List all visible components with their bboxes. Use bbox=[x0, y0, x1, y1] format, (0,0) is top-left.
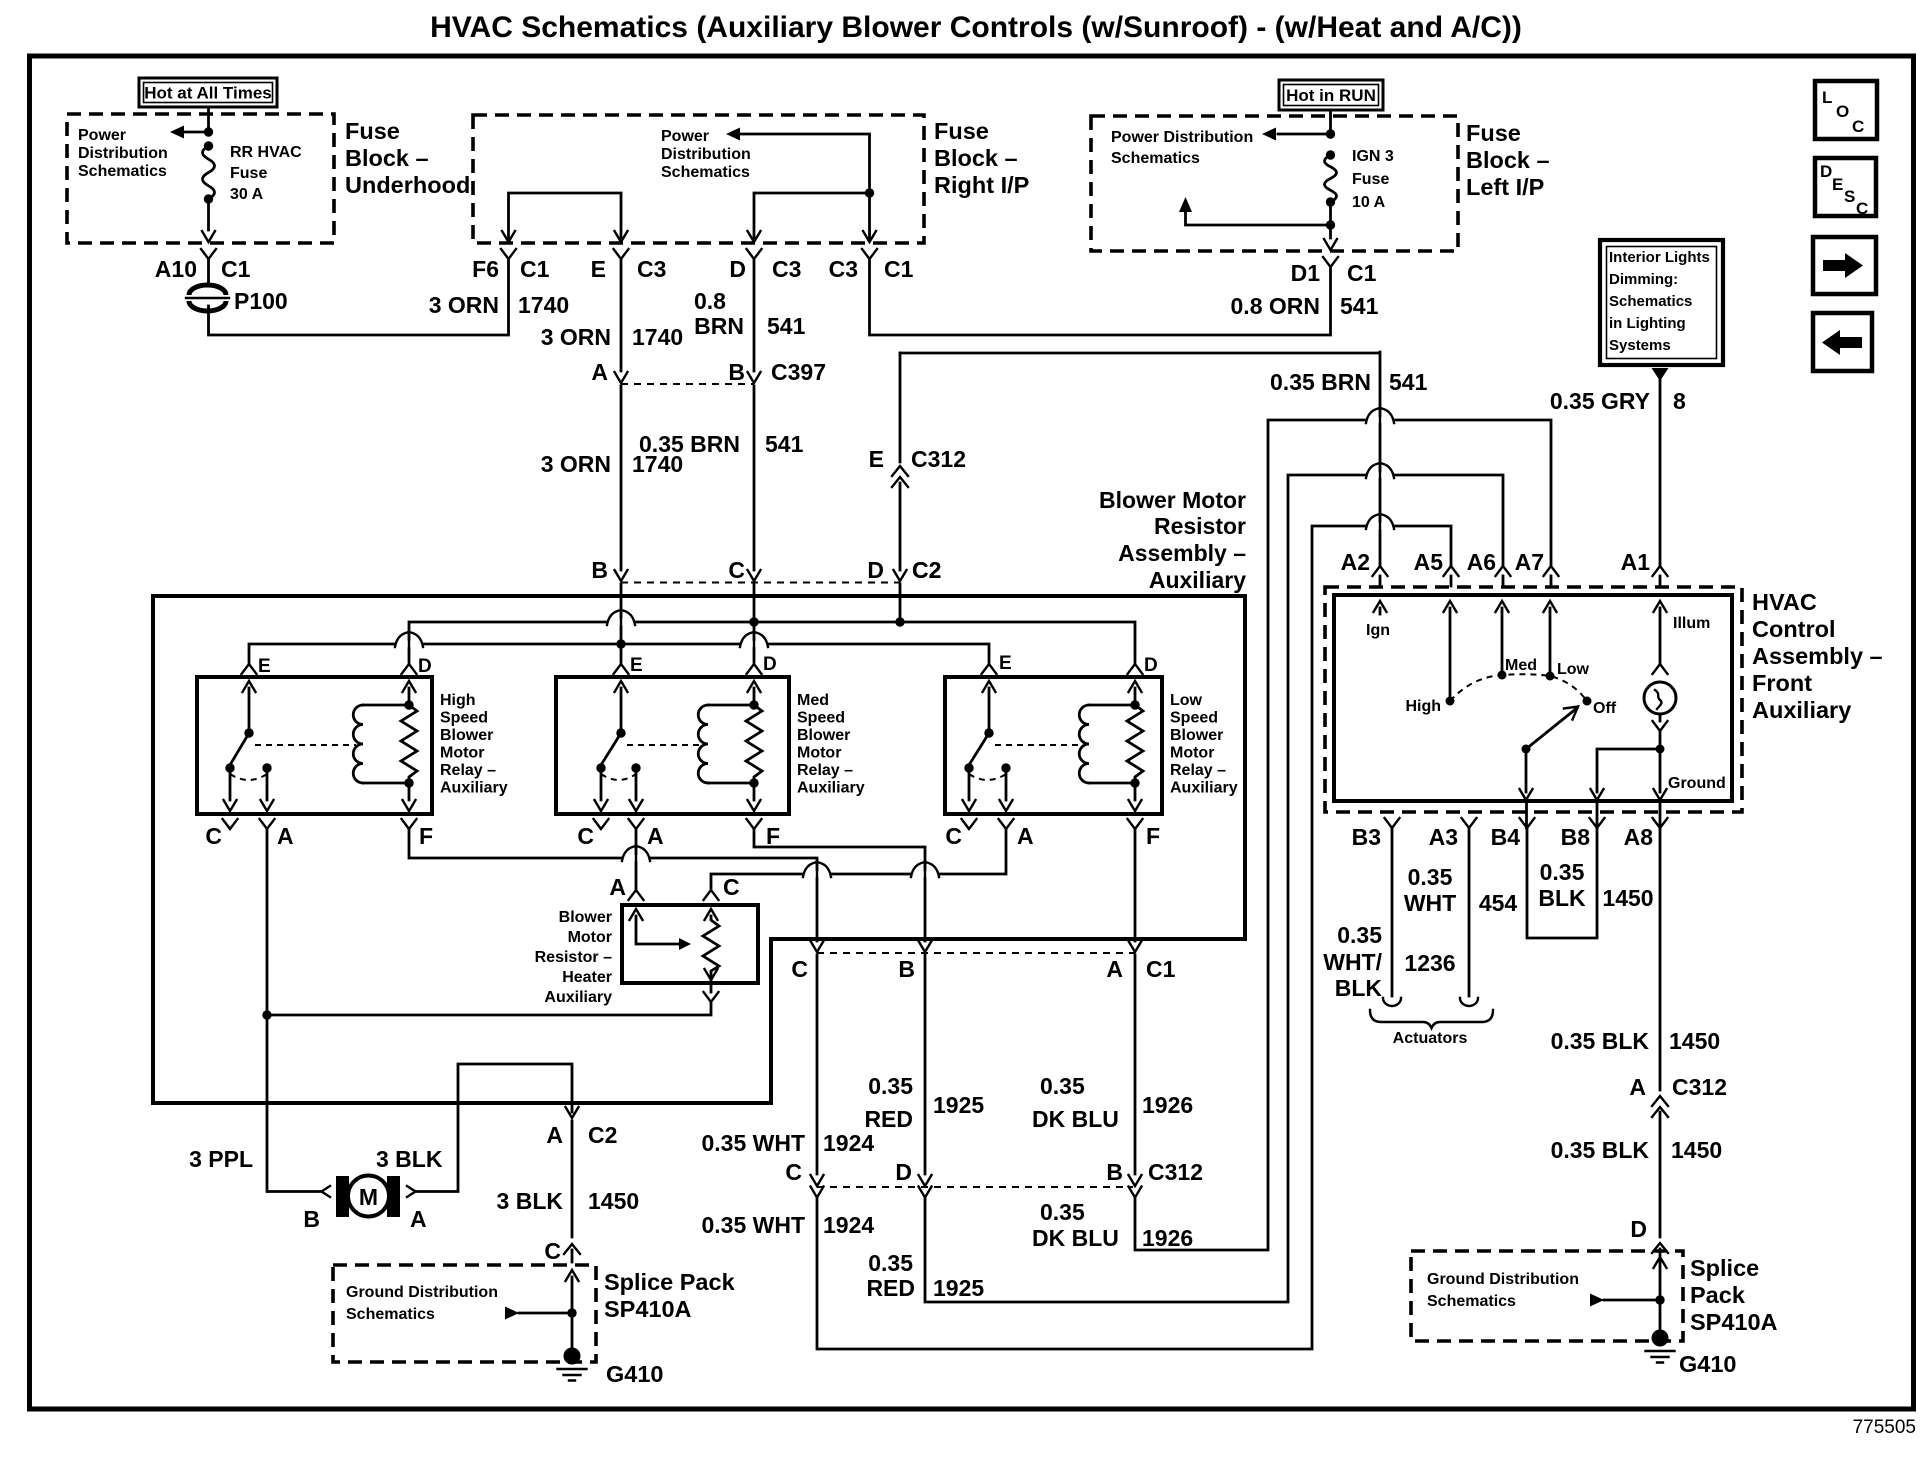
svg-text:D: D bbox=[763, 654, 777, 675]
svg-text:1450: 1450 bbox=[1671, 1137, 1722, 1163]
svg-text:D1: D1 bbox=[1291, 260, 1321, 286]
svg-text:3 BLK: 3 BLK bbox=[376, 1146, 443, 1172]
svg-text:0.35 BLK: 0.35 BLK bbox=[1551, 1137, 1650, 1163]
svg-text:Illum: Illum bbox=[1673, 615, 1710, 632]
svg-text:D: D bbox=[418, 656, 432, 677]
svg-text:C: C bbox=[945, 823, 962, 849]
svg-text:A: A bbox=[277, 823, 294, 849]
svg-text:Auxiliary: Auxiliary bbox=[544, 989, 612, 1006]
svg-text:SP410A: SP410A bbox=[604, 1296, 692, 1322]
svg-text:HVAC Schematics (Auxiliary Blo: HVAC Schematics (Auxiliary Blower Contro… bbox=[430, 11, 1522, 44]
svg-text:0.8: 0.8 bbox=[694, 288, 726, 314]
svg-text:1926: 1926 bbox=[1142, 1092, 1193, 1118]
svg-text:0.35: 0.35 bbox=[1040, 1073, 1085, 1099]
svg-text:Interior Lights: Interior Lights bbox=[1609, 249, 1710, 266]
svg-text:D: D bbox=[867, 557, 884, 583]
svg-text:0.35: 0.35 bbox=[868, 1250, 913, 1276]
svg-text:A3: A3 bbox=[1429, 824, 1458, 850]
svg-text:775505: 775505 bbox=[1853, 1417, 1916, 1438]
svg-text:Hot at All Times: Hot at All Times bbox=[144, 84, 272, 103]
svg-text:Front: Front bbox=[1752, 670, 1812, 696]
svg-text:C2: C2 bbox=[588, 1122, 617, 1148]
svg-text:E: E bbox=[630, 655, 643, 676]
svg-text:0.35 BRN: 0.35 BRN bbox=[1270, 369, 1371, 395]
svg-text:Power: Power bbox=[78, 127, 126, 144]
svg-text:Ground: Ground bbox=[1668, 775, 1726, 792]
svg-text:Motor: Motor bbox=[440, 745, 484, 762]
svg-text:3 ORN: 3 ORN bbox=[429, 292, 499, 318]
svg-text:B8: B8 bbox=[1561, 824, 1591, 850]
svg-text:Dimming:: Dimming: bbox=[1609, 271, 1678, 288]
svg-text:B: B bbox=[898, 956, 915, 982]
svg-text:B: B bbox=[728, 359, 745, 385]
svg-text:Ground Distribution: Ground Distribution bbox=[346, 1284, 498, 1301]
svg-text:Distribution: Distribution bbox=[661, 146, 751, 163]
svg-text:RR HVAC: RR HVAC bbox=[230, 144, 302, 161]
svg-text:Fuse: Fuse bbox=[230, 165, 267, 182]
svg-text:A: A bbox=[410, 1206, 427, 1232]
svg-text:A: A bbox=[609, 874, 626, 900]
svg-text:0.35: 0.35 bbox=[868, 1073, 913, 1099]
svg-text:C2: C2 bbox=[912, 557, 941, 583]
svg-text:C: C bbox=[544, 1238, 561, 1264]
svg-text:541: 541 bbox=[767, 313, 806, 339]
svg-text:A7: A7 bbox=[1515, 549, 1544, 575]
svg-text:Fuse: Fuse bbox=[345, 118, 400, 144]
svg-text:Resistor –: Resistor – bbox=[535, 949, 612, 966]
svg-text:Auxiliary: Auxiliary bbox=[797, 780, 865, 797]
svg-text:454: 454 bbox=[1479, 890, 1518, 916]
svg-text:C312: C312 bbox=[911, 446, 966, 472]
svg-text:0.35 BRN: 0.35 BRN bbox=[639, 431, 740, 457]
svg-text:WHT/: WHT/ bbox=[1323, 949, 1382, 975]
svg-text:A: A bbox=[1629, 1074, 1646, 1100]
svg-text:1925: 1925 bbox=[933, 1275, 984, 1301]
svg-text:Splice: Splice bbox=[1690, 1255, 1759, 1281]
svg-text:G410: G410 bbox=[1679, 1351, 1737, 1377]
svg-text:C: C bbox=[1856, 199, 1868, 218]
svg-text:C3: C3 bbox=[772, 256, 801, 282]
svg-text:C1: C1 bbox=[884, 256, 914, 282]
svg-text:Motor: Motor bbox=[1170, 745, 1214, 762]
svg-text:0.35 BLK: 0.35 BLK bbox=[1551, 1028, 1650, 1054]
svg-text:O: O bbox=[1836, 102, 1849, 121]
svg-text:Schematics: Schematics bbox=[78, 163, 167, 180]
svg-text:C3: C3 bbox=[637, 256, 666, 282]
svg-text:Assembly –: Assembly – bbox=[1118, 540, 1246, 566]
svg-text:A10: A10 bbox=[155, 256, 197, 282]
svg-text:Block –: Block – bbox=[934, 145, 1018, 171]
svg-text:Speed: Speed bbox=[797, 710, 845, 727]
svg-text:30 A: 30 A bbox=[230, 186, 264, 203]
svg-text:1740: 1740 bbox=[632, 324, 683, 350]
svg-text:Blower Motor: Blower Motor bbox=[1099, 487, 1246, 513]
svg-text:C3: C3 bbox=[829, 256, 858, 282]
svg-text:C: C bbox=[577, 823, 594, 849]
svg-text:Fuse: Fuse bbox=[934, 118, 989, 144]
svg-text:1236: 1236 bbox=[1404, 950, 1455, 976]
svg-text:C: C bbox=[728, 557, 745, 583]
svg-text:Speed: Speed bbox=[440, 710, 488, 727]
svg-text:0.35 GRY: 0.35 GRY bbox=[1550, 388, 1650, 414]
svg-text:Left I/P: Left I/P bbox=[1466, 174, 1544, 200]
svg-text:Auxiliary: Auxiliary bbox=[1170, 780, 1238, 797]
svg-text:G410: G410 bbox=[606, 1361, 664, 1387]
svg-text:HVAC: HVAC bbox=[1752, 589, 1817, 615]
svg-text:Power Distribution: Power Distribution bbox=[1111, 129, 1253, 146]
svg-text:Relay –: Relay – bbox=[797, 762, 853, 779]
svg-text:High: High bbox=[440, 692, 476, 709]
svg-text:D: D bbox=[1820, 162, 1832, 181]
svg-text:BLK: BLK bbox=[1335, 975, 1383, 1001]
svg-text:SP410A: SP410A bbox=[1690, 1309, 1778, 1335]
svg-text:in Lighting: in Lighting bbox=[1609, 315, 1686, 332]
svg-text:Underhood: Underhood bbox=[345, 172, 470, 198]
svg-text:0.8 ORN: 0.8 ORN bbox=[1231, 293, 1320, 319]
svg-text:B: B bbox=[1106, 1159, 1123, 1185]
svg-text:E: E bbox=[1832, 175, 1843, 194]
svg-text:1924: 1924 bbox=[823, 1130, 874, 1156]
svg-text:1450: 1450 bbox=[1602, 885, 1653, 911]
svg-text:D: D bbox=[895, 1159, 912, 1185]
svg-text:Schematics: Schematics bbox=[1609, 293, 1692, 310]
svg-text:WHT: WHT bbox=[1404, 890, 1456, 916]
svg-text:Auxiliary: Auxiliary bbox=[1149, 567, 1246, 593]
svg-text:Resistor: Resistor bbox=[1154, 513, 1246, 539]
svg-text:Relay –: Relay – bbox=[440, 762, 496, 779]
svg-text:Low: Low bbox=[1557, 661, 1590, 678]
svg-text:Fuse: Fuse bbox=[1352, 171, 1389, 188]
svg-text:1924: 1924 bbox=[823, 1212, 874, 1238]
svg-text:Schematics: Schematics bbox=[1427, 1293, 1516, 1310]
svg-text:Assembly –: Assembly – bbox=[1752, 643, 1883, 669]
svg-text:B: B bbox=[303, 1206, 320, 1232]
svg-text:A6: A6 bbox=[1467, 549, 1496, 575]
svg-text:1450: 1450 bbox=[1669, 1028, 1720, 1054]
svg-text:C1: C1 bbox=[520, 256, 550, 282]
svg-text:Motor: Motor bbox=[797, 745, 841, 762]
svg-text:E: E bbox=[258, 656, 271, 677]
svg-text:A: A bbox=[1017, 823, 1034, 849]
svg-text:Speed: Speed bbox=[1170, 710, 1218, 727]
svg-text:E: E bbox=[869, 446, 884, 472]
svg-text:P100: P100 bbox=[234, 288, 288, 314]
svg-text:Control: Control bbox=[1752, 616, 1836, 642]
svg-text:Ign: Ign bbox=[1366, 622, 1390, 639]
svg-text:Blower: Blower bbox=[559, 909, 612, 926]
svg-text:E: E bbox=[591, 256, 606, 282]
svg-text:A8: A8 bbox=[1624, 824, 1654, 850]
svg-text:3 PPL: 3 PPL bbox=[189, 1146, 253, 1172]
svg-text:Low: Low bbox=[1170, 692, 1203, 709]
svg-text:Actuators: Actuators bbox=[1393, 1030, 1468, 1047]
svg-text:Heater: Heater bbox=[562, 969, 612, 986]
svg-text:Med: Med bbox=[1505, 657, 1537, 674]
svg-text:C1: C1 bbox=[1146, 956, 1176, 982]
svg-text:C312: C312 bbox=[1148, 1159, 1203, 1185]
svg-text:3 ORN: 3 ORN bbox=[541, 451, 611, 477]
svg-text:0.35: 0.35 bbox=[1540, 859, 1585, 885]
svg-text:D: D bbox=[1630, 1216, 1647, 1242]
svg-text:Pack: Pack bbox=[1690, 1282, 1746, 1308]
svg-text:0.35: 0.35 bbox=[1337, 922, 1382, 948]
svg-text:3 ORN: 3 ORN bbox=[541, 324, 611, 350]
svg-text:C: C bbox=[205, 823, 222, 849]
svg-text:A: A bbox=[647, 823, 664, 849]
svg-text:L: L bbox=[1822, 88, 1832, 107]
svg-text:1926: 1926 bbox=[1142, 1225, 1193, 1251]
svg-text:A: A bbox=[1106, 956, 1123, 982]
svg-text:F: F bbox=[1146, 823, 1160, 849]
svg-text:RED: RED bbox=[866, 1275, 915, 1301]
svg-text:541: 541 bbox=[1389, 369, 1428, 395]
svg-text:RED: RED bbox=[864, 1106, 913, 1132]
svg-text:Schematics: Schematics bbox=[661, 164, 750, 181]
svg-text:1925: 1925 bbox=[933, 1092, 984, 1118]
svg-text:M: M bbox=[359, 1184, 378, 1210]
svg-text:A1: A1 bbox=[1621, 549, 1651, 575]
svg-text:B3: B3 bbox=[1352, 824, 1381, 850]
svg-text:0.35: 0.35 bbox=[1040, 1199, 1085, 1225]
svg-text:Motor: Motor bbox=[568, 929, 612, 946]
svg-text:Med: Med bbox=[797, 692, 829, 709]
svg-text:F: F bbox=[766, 823, 780, 849]
svg-text:3 BLK: 3 BLK bbox=[497, 1188, 564, 1214]
svg-text:C: C bbox=[1852, 117, 1864, 136]
svg-text:IGN 3: IGN 3 bbox=[1352, 148, 1394, 165]
svg-text:Relay –: Relay – bbox=[1170, 762, 1226, 779]
svg-text:Distribution: Distribution bbox=[78, 145, 168, 162]
svg-text:Systems: Systems bbox=[1609, 337, 1671, 354]
svg-text:Splice Pack: Splice Pack bbox=[604, 1269, 736, 1295]
svg-text:Hot in RUN: Hot in RUN bbox=[1286, 86, 1376, 105]
svg-text:Block –: Block – bbox=[1466, 147, 1550, 173]
svg-text:0.35 WHT: 0.35 WHT bbox=[701, 1130, 805, 1156]
svg-text:B: B bbox=[591, 557, 608, 583]
svg-text:Block –: Block – bbox=[345, 145, 429, 171]
svg-text:Off: Off bbox=[1593, 700, 1617, 717]
svg-text:C: C bbox=[785, 1159, 802, 1185]
svg-text:High: High bbox=[1405, 698, 1441, 715]
svg-text:F6: F6 bbox=[472, 256, 499, 282]
svg-text:A: A bbox=[546, 1122, 563, 1148]
svg-text:F: F bbox=[419, 823, 433, 849]
svg-text:8: 8 bbox=[1673, 388, 1686, 414]
svg-text:Power: Power bbox=[661, 128, 709, 145]
svg-text:DK BLU: DK BLU bbox=[1032, 1225, 1119, 1251]
svg-text:1740: 1740 bbox=[518, 292, 569, 318]
svg-text:C1: C1 bbox=[1347, 260, 1377, 286]
svg-text:0.35 WHT: 0.35 WHT bbox=[701, 1212, 805, 1238]
svg-text:DK BLU: DK BLU bbox=[1032, 1106, 1119, 1132]
svg-text:Schematics: Schematics bbox=[346, 1306, 435, 1323]
svg-text:D: D bbox=[729, 256, 746, 282]
svg-text:Schematics: Schematics bbox=[1111, 150, 1200, 167]
svg-text:BRN: BRN bbox=[694, 313, 744, 339]
svg-text:C397: C397 bbox=[771, 359, 826, 385]
svg-text:Fuse: Fuse bbox=[1466, 120, 1521, 146]
svg-text:A: A bbox=[591, 359, 608, 385]
svg-text:A5: A5 bbox=[1414, 549, 1444, 575]
svg-text:C1: C1 bbox=[221, 256, 251, 282]
svg-text:Auxiliary: Auxiliary bbox=[1752, 697, 1851, 723]
svg-text:D: D bbox=[1144, 655, 1158, 676]
svg-text:S: S bbox=[1844, 187, 1855, 206]
svg-text:C: C bbox=[723, 874, 740, 900]
svg-text:E: E bbox=[999, 653, 1012, 674]
svg-text:0.35: 0.35 bbox=[1408, 864, 1453, 890]
svg-text:A2: A2 bbox=[1341, 549, 1370, 575]
svg-text:C: C bbox=[791, 956, 808, 982]
svg-text:B4: B4 bbox=[1491, 824, 1521, 850]
svg-text:Auxiliary: Auxiliary bbox=[440, 780, 508, 797]
svg-text:541: 541 bbox=[765, 431, 804, 457]
svg-text:BLK: BLK bbox=[1538, 885, 1586, 911]
svg-text:Blower: Blower bbox=[1170, 727, 1223, 744]
svg-text:10 A: 10 A bbox=[1352, 194, 1386, 211]
svg-text:Blower: Blower bbox=[797, 727, 850, 744]
svg-text:541: 541 bbox=[1340, 293, 1379, 319]
svg-text:Right I/P: Right I/P bbox=[934, 172, 1029, 198]
svg-text:Blower: Blower bbox=[440, 727, 493, 744]
svg-text:C312: C312 bbox=[1672, 1074, 1727, 1100]
svg-text:1450: 1450 bbox=[588, 1188, 639, 1214]
svg-text:Ground Distribution: Ground Distribution bbox=[1427, 1271, 1579, 1288]
